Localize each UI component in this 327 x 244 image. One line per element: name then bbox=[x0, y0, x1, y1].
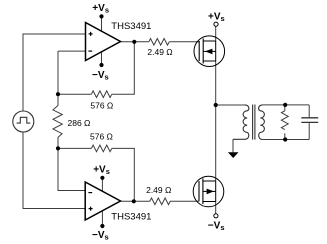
svg-text:+Vs: +Vs bbox=[93, 165, 110, 177]
svg-text:−Vs: −Vs bbox=[92, 230, 109, 242]
svg-text:2.49 Ω: 2.49 Ω bbox=[146, 185, 171, 195]
svg-text:THS3491: THS3491 bbox=[111, 212, 151, 223]
svg-text:576 Ω: 576 Ω bbox=[90, 101, 113, 111]
svg-text:2.49 Ω: 2.49 Ω bbox=[147, 47, 172, 57]
svg-text:THS3491: THS3491 bbox=[111, 21, 151, 32]
svg-text:−Vs: −Vs bbox=[92, 70, 109, 82]
svg-text:+Vs: +Vs bbox=[208, 12, 225, 24]
svg-text:−Vs: −Vs bbox=[208, 220, 225, 232]
svg-text:286 Ω: 286 Ω bbox=[68, 118, 91, 128]
svg-text:576 Ω: 576 Ω bbox=[90, 132, 113, 142]
svg-text:+Vs: +Vs bbox=[92, 3, 109, 15]
